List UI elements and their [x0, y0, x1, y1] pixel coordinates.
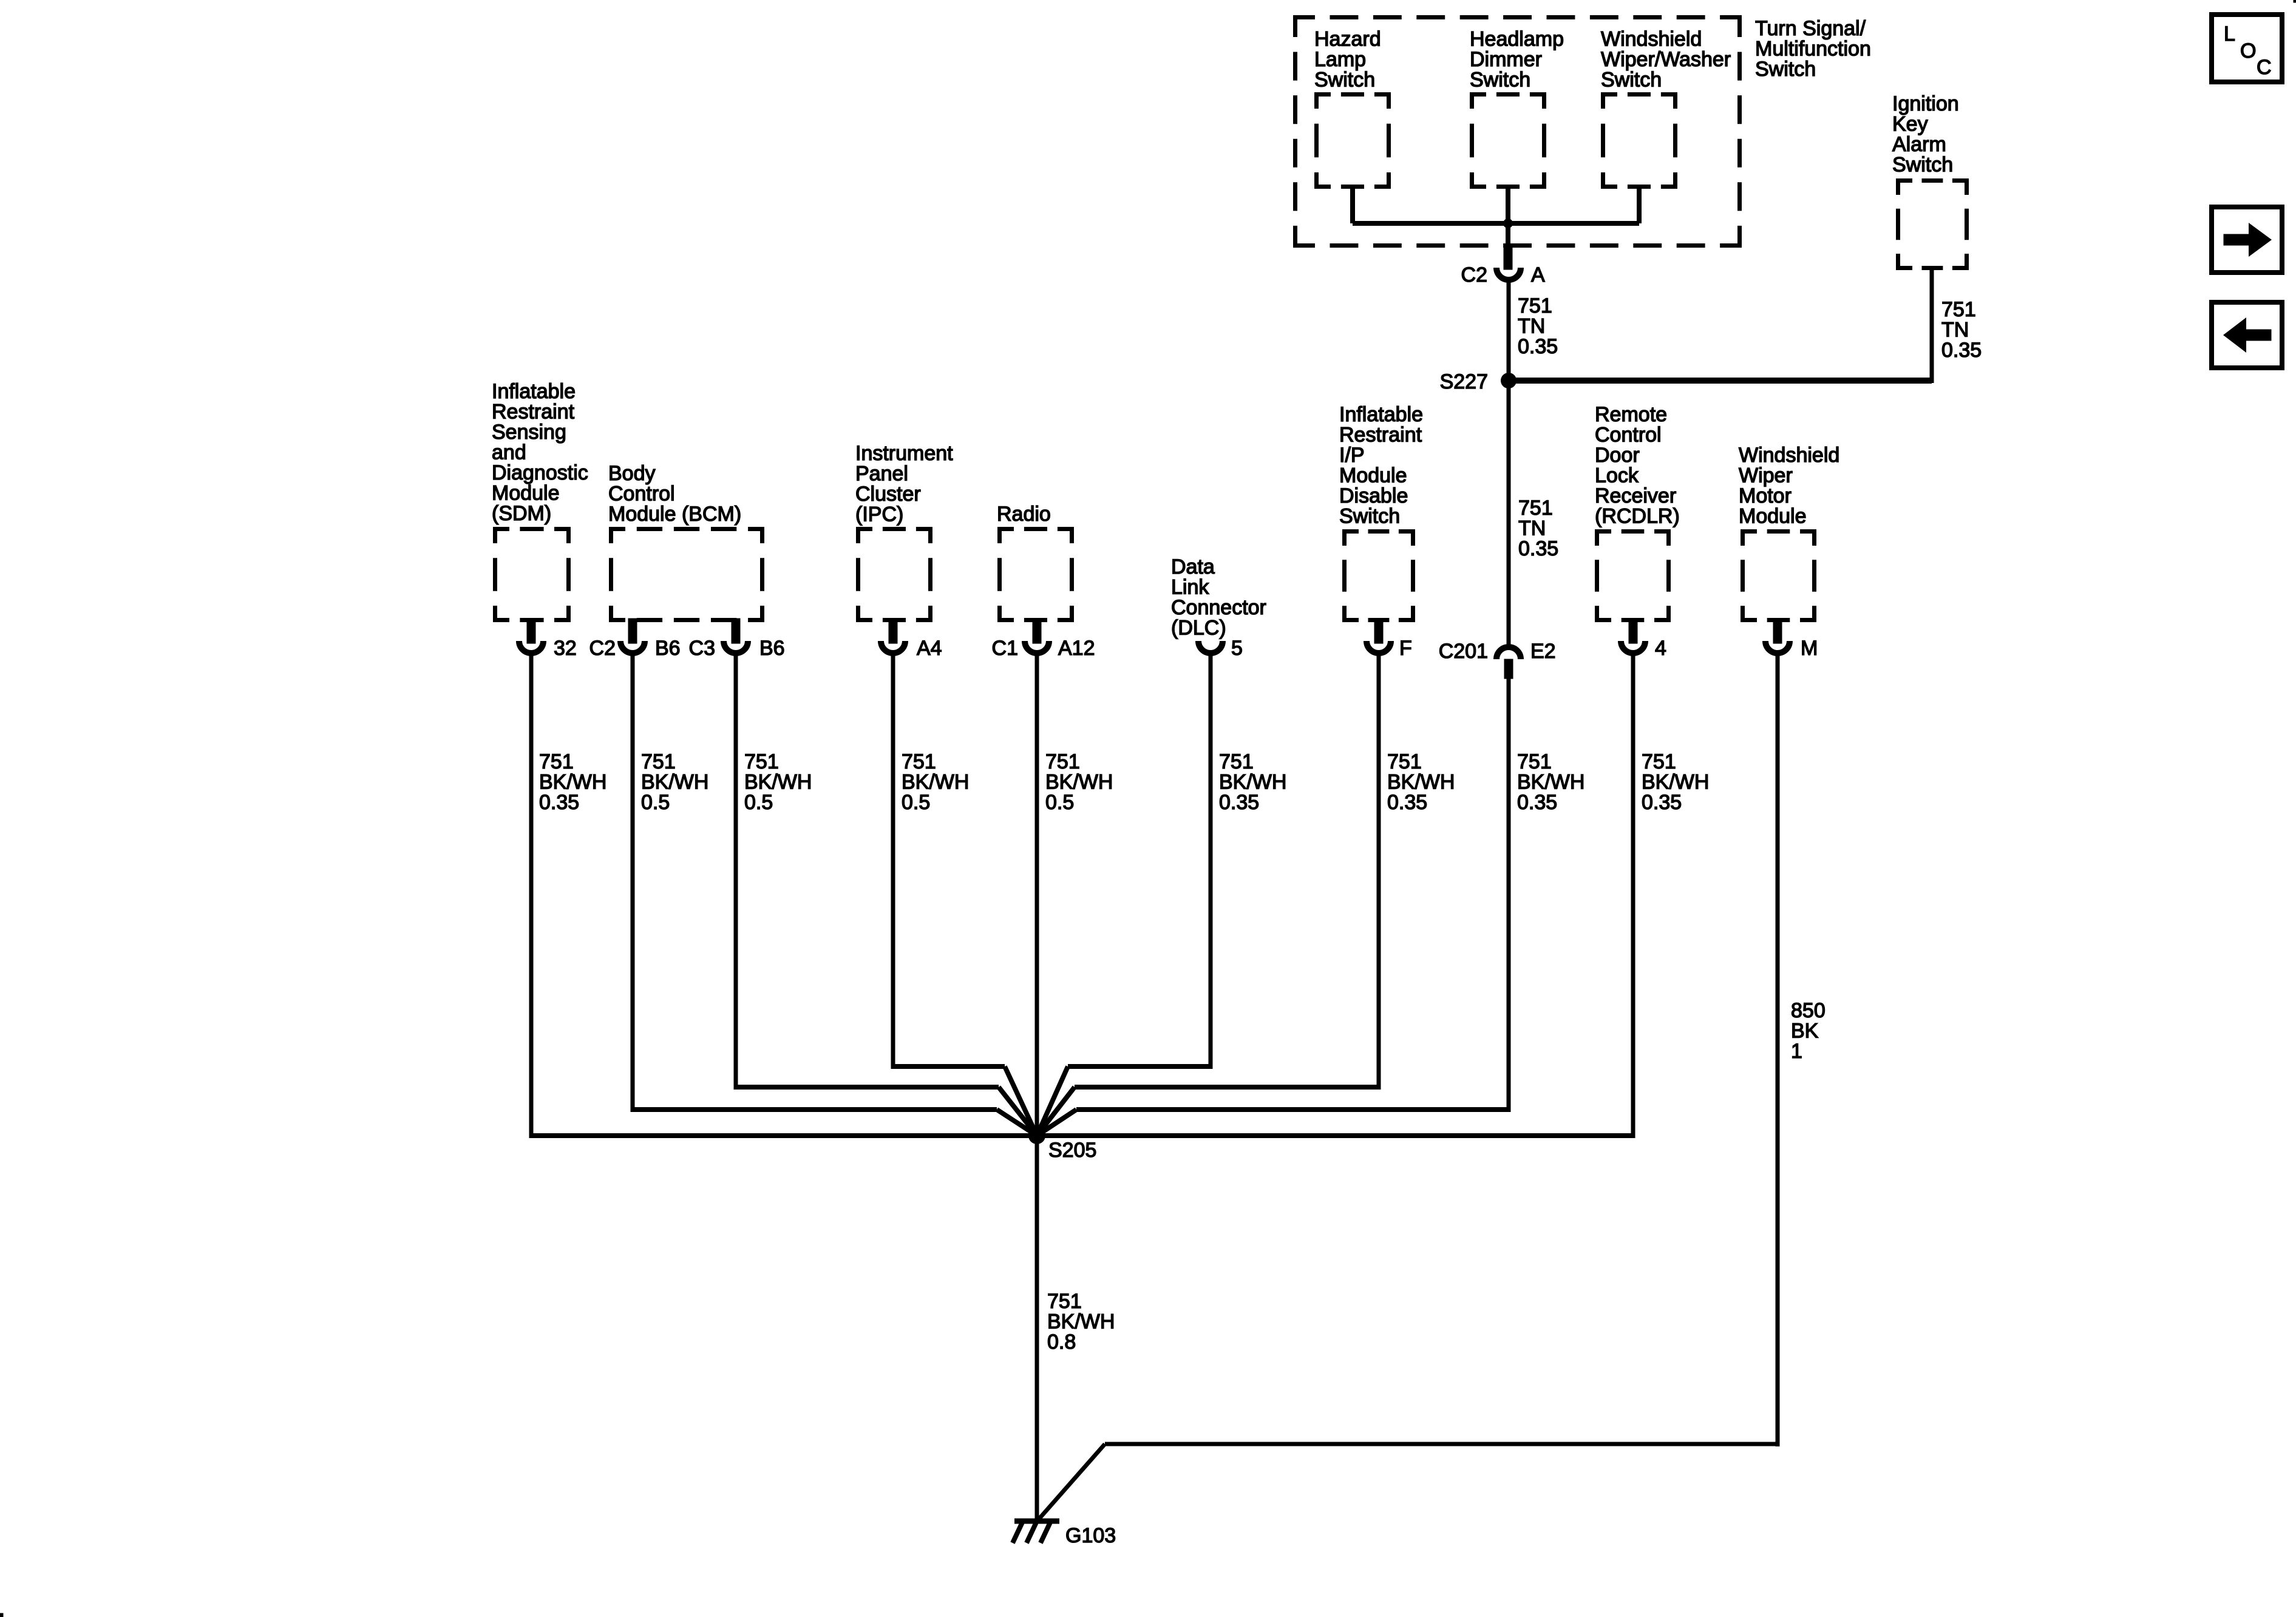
svg-text:A4: A4: [917, 637, 942, 660]
svg-text:Lock: Lock: [1595, 464, 1639, 487]
svg-text:0.35: 0.35: [1941, 339, 1982, 362]
svg-text:751: 751: [1219, 750, 1254, 773]
svg-text:C: C: [2257, 56, 2272, 79]
svg-text:Panel: Panel: [855, 463, 908, 486]
svg-text:0.35: 0.35: [1642, 791, 1682, 814]
svg-text:751: 751: [1047, 1290, 1082, 1313]
svg-text:0.5: 0.5: [1045, 791, 1074, 814]
svg-text:BK/WH: BK/WH: [641, 771, 708, 794]
svg-text:(IPC): (IPC): [855, 503, 903, 526]
svg-text:BK/WH: BK/WH: [744, 771, 812, 794]
svg-text:L: L: [2224, 22, 2235, 46]
svg-text:BK: BK: [1791, 1020, 1819, 1043]
svg-text:C2: C2: [589, 637, 616, 660]
svg-text:Module: Module: [1739, 505, 1807, 528]
svg-text:751: 751: [1518, 497, 1553, 520]
svg-text:Sensing: Sensing: [492, 421, 566, 444]
svg-text:0.35: 0.35: [1518, 335, 1558, 358]
svg-text:32: 32: [554, 637, 577, 660]
svg-text:TN: TN: [1518, 517, 1546, 540]
svg-text:0.35: 0.35: [539, 791, 579, 814]
svg-text:BK/WH: BK/WH: [539, 771, 606, 794]
svg-text:C2: C2: [1461, 263, 1487, 286]
svg-text:Remote: Remote: [1595, 403, 1667, 426]
svg-text:751: 751: [1518, 294, 1552, 317]
svg-text:751: 751: [1387, 750, 1422, 773]
svg-text:Headlamp: Headlamp: [1470, 28, 1564, 51]
svg-text:0.35: 0.35: [1387, 791, 1427, 814]
svg-text:BK/WH: BK/WH: [1045, 771, 1113, 794]
svg-text:Module (BCM): Module (BCM): [608, 503, 741, 526]
svg-text:TN: TN: [1941, 319, 1969, 342]
svg-text:Inflatable: Inflatable: [1339, 403, 1423, 426]
svg-text:Wiper: Wiper: [1739, 464, 1793, 487]
svg-text:Wiper/Washer: Wiper/Washer: [1601, 48, 1731, 71]
svg-text:BK/WH: BK/WH: [1387, 771, 1455, 794]
svg-text:751: 751: [1045, 750, 1080, 773]
svg-text:C3: C3: [689, 637, 715, 660]
svg-text:1: 1: [1791, 1040, 1802, 1063]
svg-text:Module: Module: [492, 482, 560, 505]
svg-text:BK/WH: BK/WH: [1517, 771, 1584, 794]
svg-text:Ignition: Ignition: [1892, 92, 1959, 115]
svg-text:Control: Control: [1595, 424, 1662, 447]
svg-text:Key: Key: [1892, 113, 1928, 136]
svg-text:0.35: 0.35: [1219, 791, 1259, 814]
svg-text:Door: Door: [1595, 444, 1640, 467]
svg-text:Data: Data: [1171, 555, 1215, 578]
svg-text:Cluster: Cluster: [855, 483, 921, 506]
svg-text:Switch: Switch: [1601, 69, 1662, 92]
svg-text:TN: TN: [1518, 315, 1545, 338]
svg-text:0.5: 0.5: [744, 791, 773, 814]
svg-text:Motor: Motor: [1739, 484, 1792, 507]
svg-text:Instrument: Instrument: [855, 442, 953, 465]
svg-text:Lamp: Lamp: [1314, 48, 1366, 71]
svg-text:751: 751: [902, 750, 936, 773]
svg-text:A: A: [1531, 263, 1545, 286]
svg-text:Switch: Switch: [1892, 154, 1953, 177]
svg-text:BK/WH: BK/WH: [1219, 771, 1286, 794]
svg-text:Link: Link: [1171, 576, 1209, 599]
svg-text:Control: Control: [608, 483, 675, 506]
svg-text:Alarm: Alarm: [1892, 133, 1946, 156]
svg-text:0.35: 0.35: [1517, 791, 1557, 814]
svg-text:C201: C201: [1439, 640, 1488, 663]
svg-text:Switch: Switch: [1470, 69, 1530, 92]
svg-text:Inflatable: Inflatable: [492, 380, 576, 403]
svg-text:Disable: Disable: [1339, 484, 1408, 507]
svg-text:Dimmer: Dimmer: [1470, 48, 1542, 71]
svg-text:4: 4: [1655, 637, 1666, 660]
svg-text:B6: B6: [759, 637, 785, 660]
svg-text:O: O: [2240, 39, 2256, 63]
svg-text:0.5: 0.5: [902, 791, 930, 814]
svg-text:BK/WH: BK/WH: [1642, 771, 1709, 794]
svg-text:Windshield: Windshield: [1601, 28, 1702, 51]
svg-text:0.8: 0.8: [1047, 1331, 1076, 1354]
svg-text:Turn Signal/: Turn Signal/: [1755, 17, 1866, 40]
svg-text:Multifunction: Multifunction: [1755, 38, 1871, 61]
svg-text:(SDM): (SDM): [492, 502, 551, 525]
svg-text:Windshield: Windshield: [1739, 444, 1839, 467]
svg-text:Diagnostic: Diagnostic: [492, 461, 588, 484]
svg-text:A12: A12: [1058, 637, 1095, 660]
svg-text:Connector: Connector: [1171, 596, 1266, 619]
svg-text:M: M: [1801, 637, 1818, 660]
svg-text:Module: Module: [1339, 464, 1407, 487]
svg-text:B6: B6: [655, 637, 681, 660]
svg-text:Switch: Switch: [1314, 69, 1375, 92]
svg-text:F: F: [1399, 637, 1412, 660]
svg-text:BK/WH: BK/WH: [902, 771, 969, 794]
svg-text:Body: Body: [608, 462, 656, 485]
svg-text:E2: E2: [1530, 640, 1556, 663]
svg-text:0.35: 0.35: [1518, 537, 1558, 560]
svg-text:Switch: Switch: [1339, 505, 1400, 528]
svg-text:Hazard: Hazard: [1314, 28, 1381, 51]
svg-text:G103: G103: [1065, 1524, 1116, 1547]
svg-text:751: 751: [1517, 750, 1552, 773]
svg-text:and: and: [492, 441, 526, 464]
svg-text:Receiver: Receiver: [1595, 484, 1676, 507]
svg-text:Switch: Switch: [1755, 58, 1816, 81]
svg-text:751: 751: [539, 750, 574, 773]
svg-text:(RCDLR): (RCDLR): [1595, 505, 1680, 528]
svg-text:Restraint: Restraint: [1339, 424, 1422, 447]
svg-text:0.5: 0.5: [641, 791, 670, 814]
svg-text:(DLC): (DLC): [1171, 617, 1226, 640]
svg-text:C1: C1: [992, 637, 1018, 660]
svg-text:Radio: Radio: [997, 503, 1051, 526]
svg-text:751: 751: [1941, 298, 1976, 321]
svg-text:S205: S205: [1048, 1139, 1096, 1162]
svg-text:I/P: I/P: [1339, 444, 1365, 467]
svg-text:BK/WH: BK/WH: [1047, 1310, 1115, 1334]
svg-text:751: 751: [744, 750, 779, 773]
svg-text:751: 751: [1642, 750, 1676, 773]
svg-text:Restraint: Restraint: [492, 401, 575, 424]
svg-text:751: 751: [641, 750, 676, 773]
svg-text:5: 5: [1231, 637, 1243, 660]
svg-text:S227: S227: [1440, 370, 1488, 393]
svg-text:850: 850: [1791, 999, 1826, 1022]
